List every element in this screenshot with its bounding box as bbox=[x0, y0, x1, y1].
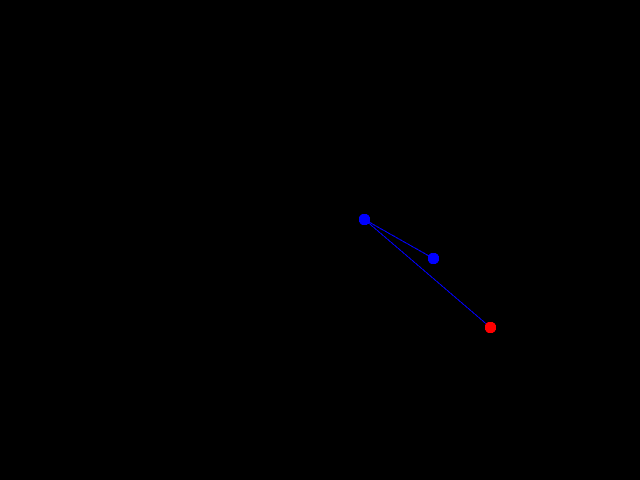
wire: link from pivot node to blue node bbox=[365, 220, 434, 259]
node B: blue middle dot bbox=[428, 253, 440, 265]
node C: red dot bbox=[485, 322, 497, 334]
node A: blue pivot dot bbox=[359, 214, 371, 226]
wire: link from pivot node to red node bbox=[365, 220, 491, 328]
